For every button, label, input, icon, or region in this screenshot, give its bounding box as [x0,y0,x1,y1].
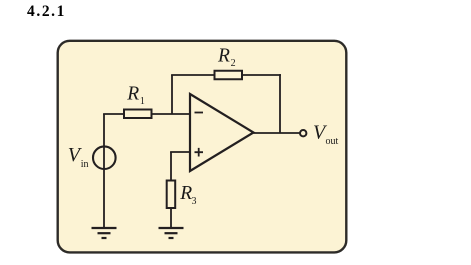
ground (R3 branch) [159,228,184,238]
wire: R2 right to feedback corner [242,74,281,76]
label R1 [126,83,145,107]
terminal Vout (open circle) [300,130,306,136]
wire: Vin branch vertical (source to top node) [103,114,105,228]
resistor R1 [124,110,152,119]
svg-text:out: out [326,136,339,147]
svg-text:3: 3 [192,196,197,207]
op-amp U1 [190,94,254,171]
op-amp inverting (minus) mark [195,112,204,114]
svg-text:in: in [81,159,89,170]
op-amp non-inverting (plus) mark [195,148,204,157]
ground (Vin branch) [92,228,117,238]
svg-text:R: R [179,183,192,204]
voltage source V_in (circle) [93,146,116,169]
wire: non-inverting input horizontal [170,151,190,153]
wire: feedback row left segment to R2 [171,74,214,76]
label R2 [217,45,236,69]
label R3 [179,183,196,207]
resistor R2 [215,71,243,80]
svg-text:R: R [217,45,230,66]
circuit background panel [58,41,347,253]
resistor R3 [167,181,176,209]
wire: op-amp output to terminal [254,132,301,134]
svg-text:1: 1 [140,96,145,107]
svg-text:R: R [126,83,139,104]
wire: top node to R1 left [103,113,124,115]
wire: plus branch down to R3 [170,152,172,181]
svg-text:4.2.1: 4.2.1 [27,3,66,20]
label Vin [68,144,89,170]
wire: R1 right to op-amp inverting input [152,113,191,115]
wire: feedback drop to output node [279,74,281,133]
label Vout [313,122,339,147]
wire: feedback drop from R2 row to inverting node [171,75,173,114]
wire: R3 bottom to ground [170,208,172,228]
svg-text:2: 2 [231,58,236,69]
